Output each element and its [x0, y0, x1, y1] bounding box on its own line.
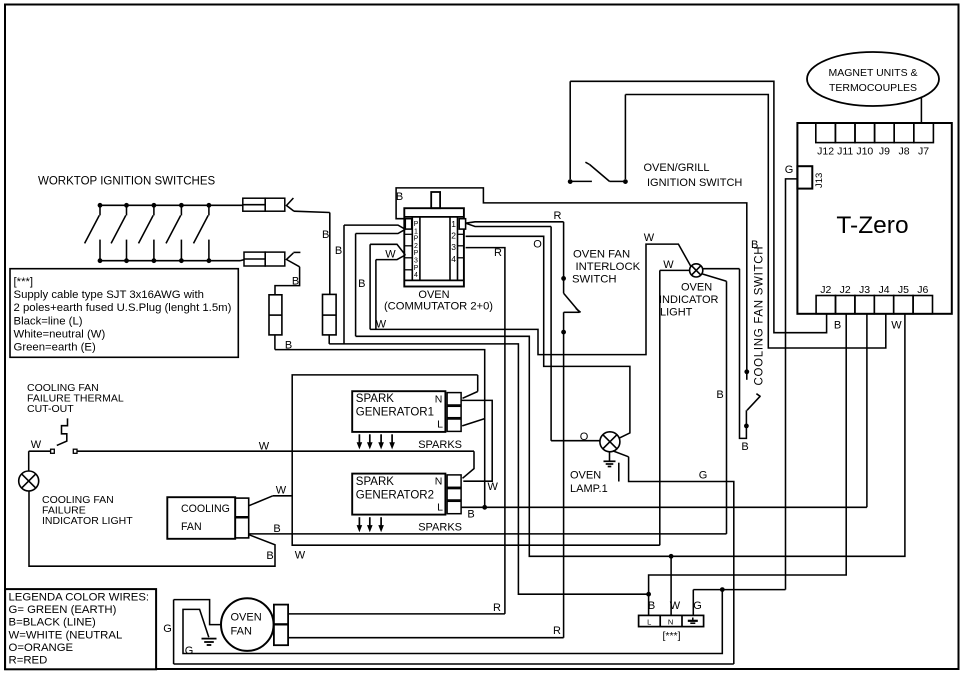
svg-text:O=ORANGE: O=ORANGE: [9, 642, 74, 654]
oven fan motor: [221, 598, 274, 651]
svg-text:OVEN FAN: OVEN FAN: [573, 249, 630, 261]
svg-text:B: B: [834, 320, 841, 332]
wire B: top feed to U1 and cooling fan switch: [396, 188, 747, 372]
tick on CN2 chevron: [293, 251, 300, 253]
wire B: fuse F1 to spark generators L: [275, 350, 485, 508]
svg-text:B=BLACK (LINE): B=BLACK (LINE): [9, 617, 97, 629]
svg-text:P: P: [414, 265, 419, 272]
svg-text:W: W: [670, 600, 681, 612]
svg-text:N: N: [668, 617, 673, 626]
svg-text:LEGENDA COLOR WIRES:: LEGENDA COLOR WIRES:: [9, 592, 150, 604]
svg-text:COOLING FAN SWITCH: COOLING FAN SWITCH: [754, 246, 766, 386]
wire G: J13 to earth terminal: [786, 179, 798, 590]
svg-text:FAN: FAN: [181, 521, 202, 533]
wire J3 down: [866, 314, 868, 508]
connector CN2 (bottom plug): [244, 252, 265, 266]
svg-text:Green=earth (E): Green=earth (E): [14, 342, 97, 354]
svg-text:W: W: [488, 481, 499, 493]
svg-text:J12: J12: [817, 146, 834, 158]
svg-text:G: G: [693, 600, 702, 612]
svg-text:Black=line (L): Black=line (L): [14, 315, 83, 327]
wire W: cooling fan to SG1 N: [292, 375, 660, 545]
wire G: oven lamp to oven fan: [613, 451, 629, 457]
switch S5 (worktop ignition): [207, 203, 212, 208]
svg-text:INTERLOCK: INTERLOCK: [576, 261, 641, 273]
ground symbol at oven fan: [202, 638, 217, 640]
svg-text:G: G: [699, 470, 708, 482]
svg-text:J9: J9: [879, 146, 890, 158]
wire W: U1 to oven indicator light: [370, 244, 691, 355]
magnet units & termocouples bubble: [807, 52, 939, 106]
svg-text:Supply cable type SJT 3x16AWG: Supply cable type SJT 3x16AWG with: [14, 289, 204, 301]
svg-text:L: L: [437, 419, 443, 431]
svg-text:SPARK: SPARK: [356, 393, 394, 405]
junction dot SG L line: [482, 505, 487, 510]
wire G: to oven fan ground: [183, 590, 722, 654]
svg-text:B: B: [273, 523, 280, 535]
wire B: SG2 L to T-Zero J3: [461, 506, 867, 508]
svg-text:MAGNET UNITS &: MAGNET UNITS &: [828, 67, 917, 79]
svg-text:INDICATOR LIGHT: INDICATOR LIGHT: [42, 515, 133, 527]
svg-text:[***]: [***]: [14, 276, 34, 288]
svg-text:W: W: [376, 319, 387, 331]
switch S2 (worktop ignition): [124, 203, 129, 208]
wire F2 bottom lead: [328, 335, 330, 344]
junction dot terminal N wire: [669, 554, 674, 559]
svg-text:W: W: [295, 550, 306, 562]
sparks arrows SG2: [358, 517, 360, 526]
T-Zero top pins J12-J7: [816, 123, 836, 143]
svg-text:W: W: [385, 249, 396, 261]
svg-text:2: 2: [451, 231, 456, 241]
wire from switch right up: [624, 95, 626, 180]
svg-text:(COMMUTATOR 2+0): (COMMUTATOR 2+0): [384, 301, 493, 313]
svg-text:CUT-OUT: CUT-OUT: [27, 403, 74, 415]
wire B lamp to bottom (diag): [703, 274, 727, 281]
svg-text:N: N: [435, 476, 443, 488]
svg-text:4: 4: [414, 272, 418, 279]
wire W vertical x=370: [369, 244, 371, 329]
fuse F2: [323, 294, 337, 335]
wire CN1 to fuse F2 (B): [294, 211, 330, 212]
oven lamp OVEN LAMP.1: [600, 432, 620, 452]
svg-text:J7: J7: [918, 146, 929, 158]
svg-text:OVEN: OVEN: [681, 282, 712, 294]
note box: supply cable description: [10, 269, 238, 358]
svg-text:W: W: [663, 259, 674, 271]
svg-text:R: R: [493, 602, 501, 614]
svg-text:G= GREEN (EARTH): G= GREEN (EARTH): [9, 604, 117, 616]
svg-text:TERMOCOUPLES: TERMOCOUPLES: [829, 82, 917, 94]
wire CN2 to fuse F1 (B): [275, 267, 300, 295]
wire R: oven fan top pin: [288, 613, 505, 615]
svg-text:W: W: [259, 441, 270, 453]
wire W: SG1 N to SG2 N: [461, 400, 492, 481]
svg-text:J10: J10: [856, 146, 873, 158]
switch S4 (worktop ignition): [179, 203, 184, 208]
svg-text:P: P: [414, 236, 419, 243]
svg-text:[***]: [***]: [662, 630, 680, 642]
svg-text:P: P: [414, 221, 419, 228]
svg-text:B: B: [266, 550, 273, 562]
svg-text:LAMP.1: LAMP.1: [570, 483, 608, 495]
wire W vertical x=376: [375, 260, 377, 330]
svg-text:B: B: [322, 229, 329, 241]
svg-text:COOLING: COOLING: [181, 503, 230, 515]
chevron into SG1 N: [463, 392, 478, 399]
svg-text:W: W: [644, 232, 655, 244]
svg-text:J4: J4: [878, 284, 889, 296]
wire to oven lamp left: [550, 227, 552, 441]
svg-text:WORKTOP IGNITION SWITCHES: WORKTOP IGNITION SWITCHES: [38, 176, 216, 188]
svg-text:B: B: [467, 509, 474, 521]
wire bottom bus of worktop switches: [98, 260, 240, 262]
svg-text:J2: J2: [840, 284, 851, 296]
wire R: U1 pin 3 to oven fan: [466, 248, 505, 614]
wire B: cooling fan pin to failure lamp: [29, 491, 275, 566]
tick near ground: [618, 463, 620, 482]
wire W: thermal cutout to SG2 N: [77, 450, 474, 452]
svg-text:W=WHITE (NEUTRAL: W=WHITE (NEUTRAL: [9, 629, 123, 641]
svg-text:J3: J3: [859, 284, 870, 296]
cooling fan switch: [744, 369, 749, 374]
wire top bus of worktop switches: [100, 204, 243, 206]
svg-text:B: B: [335, 245, 342, 257]
svg-text:1: 1: [414, 228, 418, 235]
wire: U1 line to T-Zero J5 / terminal N (W): [356, 314, 905, 557]
svg-text:N: N: [435, 394, 443, 406]
svg-text:4: 4: [451, 254, 456, 264]
wire W to terminal N: [670, 556, 672, 615]
svg-text:3: 3: [451, 242, 456, 252]
svg-text:B: B: [358, 278, 365, 290]
svg-text:P: P: [414, 250, 419, 257]
svg-text:B: B: [648, 600, 655, 612]
svg-text:OVEN: OVEN: [570, 470, 601, 482]
fuse F1: [269, 295, 282, 335]
svg-text:INDICATOR: INDICATOR: [659, 294, 719, 306]
svg-text:OVEN: OVEN: [231, 612, 262, 624]
wire W: cooling fan top pin: [249, 496, 273, 506]
wire O: U1 pin 2 to oven lamp: [466, 236, 630, 438]
wire G: outer loop to oven fan terminal: [174, 663, 734, 665]
svg-text:O: O: [580, 431, 589, 443]
svg-text:R: R: [553, 625, 561, 637]
connector arrow into U1 pin P3 (W): [370, 244, 405, 255]
svg-text:J8: J8: [898, 146, 909, 158]
terminal block L/N/earth: [639, 615, 704, 626]
svg-text:W: W: [891, 320, 902, 332]
svg-text:L: L: [437, 502, 443, 514]
wire R interlock to oven fan: [563, 312, 565, 637]
switch S3 (worktop ignition): [152, 203, 157, 208]
oven fan interlock switch: [561, 276, 566, 281]
svg-text:J6: J6: [917, 284, 928, 296]
svg-text:2: 2: [414, 243, 418, 250]
svg-text:B: B: [292, 276, 299, 288]
svg-text:R: R: [494, 247, 502, 259]
junction dot G: [720, 587, 725, 592]
svg-text:J13: J13: [814, 173, 825, 188]
wire R: oven fan bottom pin: [288, 637, 563, 639]
wire bottom bus to connector CN2: [240, 260, 244, 261]
svg-text:OVEN/GRILL: OVEN/GRILL: [644, 162, 710, 174]
wire: switch to T-Zero J4: [625, 95, 885, 349]
spark generator 2 box: [352, 474, 445, 515]
wire F1 bottom lead: [274, 335, 276, 350]
svg-text:G: G: [785, 164, 794, 176]
svg-text:SPARKS: SPARKS: [418, 439, 462, 451]
svg-text:GENERATOR1: GENERATOR1: [356, 407, 434, 419]
svg-text:R=RED: R=RED: [9, 655, 48, 667]
oven indicator light lamp: [690, 264, 703, 277]
thermal cut-out switch: [57, 418, 68, 445]
junction dot terminal L wire: [646, 592, 651, 597]
chevron into SG1 L from B line: [462, 419, 485, 426]
svg-text:G: G: [163, 623, 172, 635]
T-Zero bottom pins J2 J2 J3 J4 J5 J6: [816, 296, 835, 314]
svg-text:White=neutral (W): White=neutral (W): [14, 328, 106, 340]
cooling fan failure indicator lamp: [19, 471, 39, 491]
wire R pin1 to interlock switch: [563, 222, 565, 279]
connector arrow out of U1 pin 1 (R): [466, 222, 564, 223]
svg-text:G: G: [185, 645, 194, 657]
svg-text:IGNITION SWITCH: IGNITION SWITCH: [647, 177, 742, 189]
earth glyph in terminal: [692, 618, 694, 621]
wire: J2b to terminal L: [649, 314, 847, 616]
wire lamp left: [660, 269, 690, 271]
svg-text:B: B: [741, 441, 748, 453]
svg-text:LIGHT: LIGHT: [660, 307, 693, 319]
wire B: fuse F2 / U1 line to terminal L: [329, 344, 648, 594]
svg-text:J2: J2: [820, 284, 831, 296]
sparks arrows SG1: [358, 434, 360, 443]
svg-text:3: 3: [414, 258, 418, 265]
svg-text:B: B: [396, 191, 403, 203]
wire lamp right to switch jog: [703, 268, 740, 270]
T-Zero module box: [797, 123, 951, 314]
wire ellipse to J7: [920, 98, 922, 123]
wire B vertical x=355.6: [355, 234, 357, 337]
svg-text:O: O: [533, 239, 542, 251]
ground symbol under oven lamp: [609, 452, 611, 462]
oven/grill ignition switch: [568, 179, 573, 184]
svg-text:W: W: [276, 485, 287, 497]
svg-text:B: B: [716, 389, 723, 401]
svg-text:J11: J11: [837, 146, 853, 158]
switch S1 (worktop ignition): [98, 203, 103, 208]
oven commutator U1 (OVEN COMMUTATOR 2+0): [431, 192, 440, 208]
wire G: earth terminal to J13: [692, 590, 694, 616]
spark generator 1 box: [352, 391, 445, 432]
svg-text:2 poles+earth fused U.S.Plug (: 2 poles+earth fused U.S.Plug (lenght 1.5…: [14, 302, 232, 314]
svg-text:SPARK: SPARK: [356, 476, 394, 488]
connector J13: [797, 166, 812, 188]
svg-text:OVEN: OVEN: [418, 289, 449, 301]
wire: switch to T-Zero J2 (B): [570, 81, 826, 332]
connector CN1 (top plug): [243, 198, 265, 211]
wire B vertical x=344: [343, 225, 345, 344]
svg-text:SWITCH: SWITCH: [572, 274, 617, 286]
svg-text:SPARKS: SPARKS: [418, 522, 462, 534]
svg-text:L: L: [647, 617, 651, 626]
connector arrow into U1 pin P1 (B): [344, 225, 405, 229]
legend box LEGENDA COLOR WIRES: [5, 589, 156, 669]
svg-text:FAN: FAN: [231, 626, 252, 638]
svg-text:1: 1: [451, 219, 456, 229]
svg-text:R: R: [554, 210, 562, 222]
wire from switch left up: [569, 81, 571, 179]
svg-text:W: W: [31, 439, 42, 451]
svg-text:J5: J5: [898, 284, 909, 296]
wire B: cooling fan bottom pin to right: [249, 533, 726, 535]
cooling fan box: [167, 497, 235, 539]
svg-text:GENERATOR2: GENERATOR2: [356, 490, 434, 502]
svg-text:T-Zero: T-Zero: [836, 212, 908, 239]
